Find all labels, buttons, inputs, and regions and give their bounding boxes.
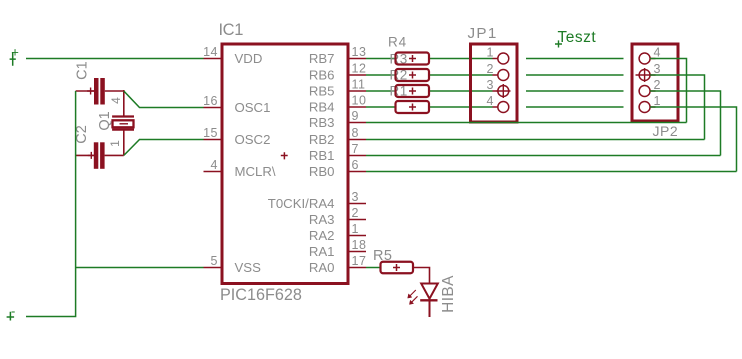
JP2 pin numbers <box>654 46 661 109</box>
svg-text:10: 10 <box>352 94 367 108</box>
svg-text:RB2: RB2 <box>309 132 335 147</box>
capacitor C2 <box>76 142 124 169</box>
resistor R3 <box>396 69 430 81</box>
svg-text:2: 2 <box>352 206 359 220</box>
wire JP2.2 wrap to RB1 <box>650 91 720 156</box>
svg-text:12: 12 <box>352 62 367 76</box>
wire RB0 long net <box>366 171 737 173</box>
supply + symbol <box>10 52 16 65</box>
svg-text:9: 9 <box>352 109 359 123</box>
wire JP1.4 to JP2.1 <box>526 106 624 108</box>
wire RB7 to resistor <box>366 58 396 60</box>
wire RB6 to resistor <box>366 74 396 76</box>
wire RA0 to R5 <box>366 267 381 269</box>
svg-text:PIC16F628: PIC16F628 <box>220 286 302 304</box>
svg-text:RA2: RA2 <box>309 228 335 243</box>
net label Teszt origin cross <box>555 40 562 47</box>
IC1 right pin names <box>268 51 335 275</box>
svg-text:2: 2 <box>487 62 494 76</box>
JP1 pin 3 <box>493 84 511 98</box>
svg-text:1: 1 <box>352 222 359 236</box>
svg-text:7: 7 <box>352 142 359 156</box>
resistor R4 <box>396 53 430 65</box>
svg-text:HIBA: HIBA <box>440 275 457 313</box>
wire OSC1 net <box>124 91 204 108</box>
svg-text:JP2: JP2 <box>653 123 679 139</box>
svg-text:4: 4 <box>654 46 661 60</box>
svg-text:RB5: RB5 <box>309 84 335 99</box>
JP1 pin numbers <box>487 46 494 109</box>
svg-text:Teszt: Teszt <box>558 29 597 46</box>
svg-text:5: 5 <box>211 254 218 268</box>
svg-text:RA3: RA3 <box>309 212 335 227</box>
svg-text:18: 18 <box>352 238 367 252</box>
svg-text:3: 3 <box>487 78 494 92</box>
svg-text:OSC1: OSC1 <box>235 100 271 115</box>
svg-text:8: 8 <box>352 126 359 140</box>
svg-text:-: - <box>11 304 15 319</box>
svg-text:4: 4 <box>487 94 494 108</box>
svg-text:13: 13 <box>352 45 367 59</box>
supply - symbol <box>7 312 15 321</box>
wire resistor to JP1 pin 4 <box>429 106 493 108</box>
wire RB4 to resistor <box>366 106 396 108</box>
svg-text:16: 16 <box>203 94 218 108</box>
wire JP1.3 to JP2.2 <box>526 90 624 92</box>
svg-text:MCLR\: MCLR\ <box>235 164 276 179</box>
wire RB2 long net <box>366 139 705 141</box>
svg-text:4: 4 <box>211 158 218 172</box>
svg-text:+: + <box>11 44 19 59</box>
resistor R2 <box>396 85 430 97</box>
IC1 left pin names <box>235 51 276 275</box>
svg-text:RB7: RB7 <box>309 51 335 66</box>
svg-text:6: 6 <box>352 158 359 172</box>
svg-text:1: 1 <box>487 46 494 60</box>
wire JP1.2 to JP2.3 <box>526 74 624 76</box>
svg-text:11: 11 <box>352 78 366 92</box>
svg-text:VDD: VDD <box>235 51 263 66</box>
LED HIBA <box>420 284 438 318</box>
IC1 right pin numbers <box>352 45 367 268</box>
svg-text:RB0: RB0 <box>309 164 335 179</box>
svg-text:17: 17 <box>352 254 367 268</box>
svg-text:RA1: RA1 <box>309 244 335 259</box>
wire resistor to JP1 pin 1 <box>429 58 493 60</box>
IC1 box <box>222 44 348 284</box>
wire resistor to JP1 pin 3 <box>429 90 493 92</box>
svg-text:1: 1 <box>654 94 661 108</box>
resistor R1 <box>396 101 430 113</box>
svg-text:2: 2 <box>654 78 661 92</box>
connector JP1 box <box>471 44 518 122</box>
svg-text:C1: C1 <box>75 61 91 80</box>
svg-text:14: 14 <box>203 45 218 59</box>
JP1 pin 1 <box>493 53 509 64</box>
svg-text:RB4: RB4 <box>309 100 335 115</box>
svg-text:R4: R4 <box>388 35 407 50</box>
svg-text:OSC2: OSC2 <box>235 132 271 147</box>
svg-text:VSS: VSS <box>235 260 262 275</box>
svg-text:4: 4 <box>109 97 123 104</box>
svg-text:T0CKI/RA4: T0CKI/RA4 <box>268 196 335 211</box>
svg-text:3: 3 <box>352 190 359 204</box>
IC1 origin cross <box>281 152 288 159</box>
JP1 pin 4 <box>493 102 509 113</box>
wire JP2.3 wrap to RB2 <box>650 75 704 140</box>
LED arrows <box>408 290 418 304</box>
wire RB3 long net <box>366 122 687 124</box>
JP2 pin 3 <box>636 68 656 82</box>
svg-text:1: 1 <box>108 140 122 147</box>
crystal Q1 <box>112 90 134 155</box>
wire VSS net <box>76 267 204 269</box>
JP1 pin 2 <box>493 70 509 81</box>
wire RB1 long net <box>366 155 721 157</box>
JP2 pin 1 <box>639 102 655 113</box>
capacitor C1 <box>76 78 124 105</box>
svg-text:RB1: RB1 <box>309 148 335 163</box>
wire OSC2 net <box>124 140 204 156</box>
IC1 pin stubs left (14,16,15,4,5) <box>204 59 222 268</box>
wire RB5 to resistor <box>366 90 396 92</box>
svg-text:JP1: JP1 <box>468 25 498 42</box>
svg-text:15: 15 <box>203 126 218 140</box>
IC1 pin stubs right (13,12,11,10,9,8,7,6,3,2,1,18,17) <box>349 59 366 268</box>
svg-text:C2: C2 <box>74 125 90 144</box>
resistor R5 <box>381 262 414 274</box>
JP2 pin 2 <box>639 86 655 97</box>
wire R5 to LED <box>413 268 430 284</box>
wire JP2.4 wrap to RB3 <box>650 59 686 123</box>
svg-text:Q1: Q1 <box>97 111 113 130</box>
wire resistor to JP1 pin 2 <box>429 74 493 76</box>
wire JP2.1 wrap to RB0 <box>650 107 736 172</box>
svg-text:RB3: RB3 <box>309 115 335 130</box>
wire VDD net <box>26 58 204 60</box>
svg-text:IC1: IC1 <box>219 21 244 39</box>
svg-text:RA0: RA0 <box>309 260 335 275</box>
wire JP1.1 to JP2.4 <box>526 58 624 60</box>
connector JP2 box <box>632 44 678 121</box>
wire ground rail <box>26 91 76 317</box>
svg-text:3: 3 <box>654 62 661 76</box>
JP2 pin 4 <box>639 53 655 64</box>
svg-text:RB6: RB6 <box>309 68 335 83</box>
IC1 left pin numbers <box>203 45 218 268</box>
